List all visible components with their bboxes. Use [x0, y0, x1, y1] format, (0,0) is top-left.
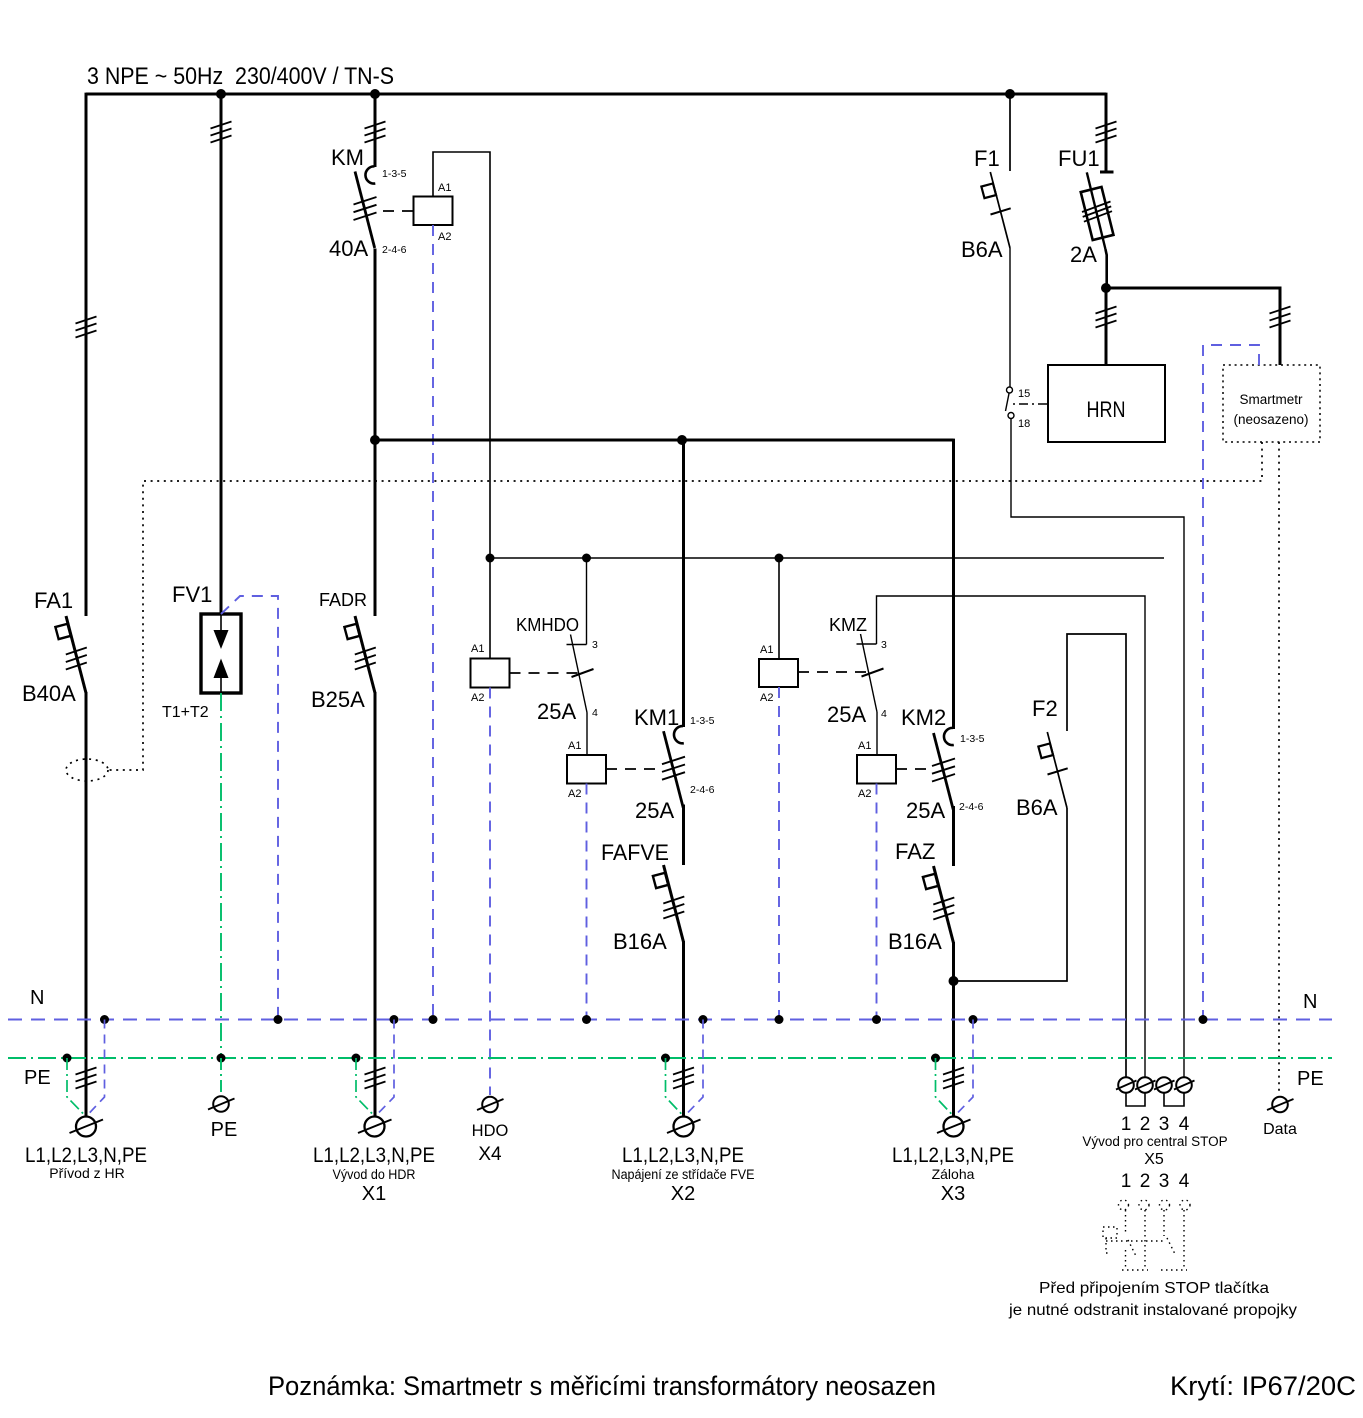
dashed link from KM2 coil to KM2 contact	[896, 768, 930, 770]
N drop to X0	[88, 1020, 105, 1116]
wire: HRN contact output to X5:4 drop	[1011, 419, 1184, 1078]
relay HRN box	[1048, 365, 1165, 442]
wire: FU1 branch from top bus corner	[1105, 93, 1108, 172]
breaker FAZ B16A	[923, 866, 954, 943]
wire: FV1 branch	[220, 94, 223, 614]
node: internal bus at X1 branch	[370, 435, 380, 445]
coil KM1 (A1/A2)	[567, 755, 606, 784]
svg-text:X2: X2	[671, 1183, 695, 1205]
wire: F1 output down to HRN contact	[1009, 248, 1011, 387]
svg-text:X4: X4	[478, 1144, 502, 1165]
terminal X3 Zaloha	[892, 1020, 1014, 1206]
wire: FA1 branch upper segment	[85, 93, 88, 616]
svg-text:Přívod z HR: Přívod z HR	[49, 1165, 124, 1181]
wire: FVE branch between KM1 and FAFVE	[682, 805, 685, 866]
svg-text:A2: A2	[471, 692, 484, 704]
phase marks above X0	[76, 1068, 97, 1089]
wire: KM2 coil A2 (blue dashed) to N bus	[876, 784, 878, 1020]
jumper links below X5 1-2 and 3-4	[1126, 1093, 1145, 1106]
wire: Zaloha branch between KM2 and FAZ	[952, 806, 955, 866]
svg-text:L1,L2,L3,N,PE: L1,L2,L3,N,PE	[313, 1144, 435, 1167]
svg-text:PE: PE	[211, 1119, 238, 1141]
dashed link from KMHDO coil to KMHDO contact	[510, 672, 579, 674]
svg-text:A1: A1	[760, 644, 773, 656]
contactor KM main contact 40A	[354, 166, 377, 248]
svg-text:HDO: HDO	[472, 1122, 509, 1140]
dashed link from KMZ coil to KMZ contact	[798, 671, 866, 673]
svg-text:X1: X1	[362, 1183, 386, 1205]
contactor KM1 main contact 25A	[662, 726, 685, 808]
svg-text:F2: F2	[1032, 696, 1058, 721]
wire: KMHDO contact pin4 to KM1 coil A1	[586, 713, 588, 756]
wire: Smartmetr neutral (blue dashed)	[1203, 345, 1259, 1019]
wire: KMZ coil A1 from control bus	[778, 558, 780, 659]
node: control bus at KM coil / KMHDO coil	[486, 554, 495, 563]
wire: X1 branch lower segment	[374, 692, 377, 1116]
svg-text:KMZ: KMZ	[829, 615, 867, 635]
svg-text:FAFVE: FAFVE	[601, 840, 669, 865]
terminal X4 HDO	[472, 1097, 509, 1165]
svg-text:2-4-6: 2-4-6	[690, 784, 715, 796]
terminal Data	[1263, 1097, 1297, 1138]
wire: KMZ coil A2 (blue dashed) to N bus	[778, 687, 780, 1019]
phase marks on FV1 branch	[211, 122, 232, 143]
dashed link from KM1 coil to KM1 contact	[606, 768, 658, 770]
wire: FA1 branch lower segment	[85, 692, 88, 1116]
svg-text:Napájení ze střídače FVE: Napájení ze střídače FVE	[612, 1167, 755, 1182]
svg-text:L1,L2,L3,N,PE: L1,L2,L3,N,PE	[25, 1144, 147, 1167]
contact KMHDO (NO)	[567, 635, 594, 713]
node: bus junction at F1 branch	[1005, 89, 1015, 99]
svg-text:A2: A2	[438, 231, 451, 243]
svg-text:B40A: B40A	[22, 681, 76, 706]
phase marks on KM branch	[365, 122, 386, 143]
svg-text:PE: PE	[24, 1067, 51, 1089]
coil KMZ (A1/A2)	[759, 659, 798, 687]
phase marks on FA1 branch	[76, 317, 97, 338]
breaker FA1 B40A	[55, 616, 86, 693]
svg-text:2-4-6: 2-4-6	[382, 244, 407, 256]
Smartmetr dotted box	[1223, 365, 1320, 442]
breaker FADR B25A	[344, 616, 375, 693]
breaker FAFVE B16A	[653, 865, 684, 942]
node: bus junction at KM branch	[370, 89, 380, 99]
svg-text:KM1: KM1	[634, 705, 679, 730]
svg-text:Vývod pro central STOP: Vývod pro central STOP	[1082, 1134, 1227, 1149]
breaker F2 B6A	[1038, 732, 1067, 808]
terminal Privod z HR (L1,L2,L3,N,PE)	[25, 1020, 147, 1182]
PE drop to X0	[67, 1058, 85, 1115]
svg-text:18: 18	[1018, 418, 1030, 430]
svg-text:FADR: FADR	[319, 590, 367, 610]
fuse switch FU1 2A	[1081, 172, 1114, 288]
svg-text:1: 1	[1121, 1114, 1132, 1135]
svg-text:A1: A1	[568, 740, 581, 752]
svg-text:je nutné odstranit instalované: je nutné odstranit instalované propojky	[1008, 1302, 1297, 1319]
svg-text:B6A: B6A	[1016, 795, 1058, 820]
nodes: PE bus junctions	[63, 1054, 941, 1063]
PE bus (green dash-dot)	[8, 1057, 1332, 1059]
svg-text:2: 2	[1140, 1171, 1151, 1192]
coil KM2 (A1/A2)	[857, 755, 896, 784]
current transformer dotted ellipse on FA1 line	[66, 759, 108, 781]
contact KMZ (NO)	[857, 634, 884, 712]
svg-text:X5: X5	[1144, 1151, 1164, 1168]
wire: FV1 earth link (green dash-dot) to PE bus	[220, 693, 222, 1058]
N bus (blue dashed)	[8, 1019, 1332, 1021]
wire: internal distribution bus after KM	[375, 439, 954, 442]
wire: KM coil A2 (blue dashed) to N bus	[432, 225, 434, 1019]
svg-text:F1: F1	[974, 146, 1000, 171]
wire: KM output down to internal bus	[374, 249, 377, 441]
svg-text:FA1: FA1	[34, 588, 73, 613]
svg-text:1-3-5: 1-3-5	[690, 715, 715, 727]
wire: KM coil A1 feed to control bus	[433, 152, 490, 558]
wire: feed over to Smartmetr	[1106, 288, 1280, 365]
svg-text:A1: A1	[438, 182, 451, 194]
terminal X5 Vyvod pro central STOP	[1082, 1077, 1227, 1192]
svg-text:FV1: FV1	[172, 582, 212, 607]
svg-text:25A: 25A	[827, 702, 866, 727]
svg-text:KM2: KM2	[901, 705, 946, 730]
svg-text:T1+T2: T1+T2	[162, 704, 209, 721]
svg-text:25A: 25A	[635, 798, 674, 823]
svg-text:3: 3	[881, 639, 887, 651]
wire: Zaloha branch from internal bus corner down to KM2 contact	[952, 439, 955, 729]
coil KMHDO (A1/A2)	[471, 659, 510, 688]
node: control bus at KMHDO contact	[582, 554, 591, 563]
svg-text:4: 4	[1179, 1114, 1190, 1135]
svg-text:3 NPE ~ 50Hz 230/400V / TN-S: 3 NPE ~ 50Hz 230/400V / TN-S	[87, 63, 394, 90]
svg-text:4: 4	[881, 708, 887, 720]
svg-text:A1: A1	[858, 740, 871, 752]
svg-text:KM: KM	[331, 145, 364, 170]
X5 terminal circles 1-4	[1116, 1077, 1137, 1093]
svg-text:Poznámka: Smartmetr s měřicími: Poznámka: Smartmetr s měřicími transform…	[268, 1371, 936, 1401]
dotted Data line from Smartmetr	[1278, 442, 1280, 1092]
wire: KM branch from bus to contact	[374, 94, 377, 167]
svg-text:25A: 25A	[906, 798, 945, 823]
svg-text:2A: 2A	[1070, 242, 1097, 267]
svg-text:A1: A1	[471, 643, 484, 655]
wire: KMZ contact pin4 to KM2 coil A1	[876, 712, 878, 755]
phase marks on FU1 branch	[1096, 122, 1117, 143]
svg-text:Data: Data	[1263, 1121, 1297, 1138]
svg-text:B25A: B25A	[311, 687, 365, 712]
svg-text:4: 4	[592, 707, 598, 719]
terminal X2 Napajeni ze stridace FVE	[612, 1020, 755, 1206]
contact HRN 15-18	[1006, 387, 1015, 419]
wire: KMHDO contact pin3 from control bus	[586, 558, 588, 645]
svg-text:KMHDO: KMHDO	[516, 615, 579, 635]
node: junction below FU1	[1101, 283, 1111, 293]
dotted STOP button symbol	[1103, 1200, 1190, 1270]
svg-text:(neosazeno): (neosazeno)	[1233, 412, 1308, 427]
wire: FVE branch lower segment to X2	[682, 941, 685, 1116]
dotted measurement loop from Smartmetr to CT on FA1 line	[108, 442, 1262, 770]
svg-text:25A: 25A	[537, 699, 576, 724]
svg-text:PE: PE	[1297, 1068, 1324, 1090]
svg-text:3: 3	[592, 639, 598, 651]
svg-text:HRN: HRN	[1087, 397, 1126, 422]
svg-text:1: 1	[1121, 1171, 1132, 1192]
terminal PE stub	[208, 1058, 237, 1141]
svg-text:L1,L2,L3,N,PE: L1,L2,L3,N,PE	[892, 1144, 1014, 1167]
wire: feed to HRN	[1105, 288, 1108, 365]
svg-text:Před připojením STOP tlačítka: Před připojením STOP tlačítka	[1039, 1280, 1269, 1297]
svg-text:A2: A2	[760, 692, 773, 704]
svg-text:L1,L2,L3,N,PE: L1,L2,L3,N,PE	[622, 1144, 744, 1167]
contactor KM2 main contact 25A	[932, 728, 955, 810]
svg-text:B6A: B6A	[961, 237, 1003, 262]
surge arrester FV1 T1+T2	[201, 614, 241, 693]
svg-text:A2: A2	[568, 788, 581, 800]
wire: KMZ contact pin3 elbow to X5:2 drop	[877, 596, 1146, 1077]
svg-text:Krytí: IP67/20C: Krytí: IP67/20C	[1170, 1371, 1356, 1401]
svg-text:3: 3	[1159, 1114, 1170, 1135]
terminal circle X0	[70, 1117, 104, 1137]
coil KM (A1/A2)	[414, 197, 453, 226]
svg-text:Smartmetr: Smartmetr	[1239, 392, 1303, 407]
svg-text:15: 15	[1018, 388, 1030, 400]
node: internal bus at FVE branch	[677, 435, 687, 445]
svg-text:N: N	[1303, 991, 1317, 1013]
svg-text:3: 3	[1159, 1171, 1170, 1192]
wire: FV1 neutral link (blue dashed) to N bus	[221, 596, 278, 1019]
dashed mechanical link from KM contact to KM coil	[383, 210, 413, 212]
wire: KMHDO coil A1 from control bus	[489, 558, 491, 659]
wire: F2 feed from Zaloha branch	[954, 808, 1068, 981]
node: bus junction at FV1 branch	[216, 89, 226, 99]
svg-text:FAZ: FAZ	[895, 839, 935, 864]
breaker F1 B6A	[981, 172, 1010, 248]
svg-text:1-3-5: 1-3-5	[960, 733, 985, 745]
svg-text:4: 4	[1179, 1171, 1190, 1192]
svg-text:X3: X3	[941, 1183, 965, 1205]
svg-text:N: N	[30, 987, 44, 1009]
wire: control bus	[490, 557, 1164, 559]
terminal X1 Vyvod do HDR	[313, 1020, 435, 1206]
wire: KMHDO coil A2 (blue dashed) down to HDO terminal X4	[489, 688, 491, 1096]
svg-text:B16A: B16A	[888, 929, 942, 954]
node: F2 tap on Zaloha branch	[949, 976, 959, 986]
wire: KM1 coil A2 (blue dashed) to N bus	[586, 784, 588, 1020]
svg-text:1-3-5: 1-3-5	[382, 168, 407, 180]
wire: FVE branch from internal bus to KM1 contact	[682, 440, 685, 727]
svg-text:40A: 40A	[329, 236, 368, 261]
wire: F1 branch from top bus	[1009, 94, 1011, 171]
svg-text:A2: A2	[858, 788, 871, 800]
svg-text:2-4-6: 2-4-6	[959, 801, 984, 813]
svg-text:Záloha: Záloha	[932, 1166, 975, 1182]
svg-text:Vývod do HDR: Vývod do HDR	[333, 1166, 416, 1182]
svg-text:B16A: B16A	[613, 929, 667, 954]
svg-text:2: 2	[1140, 1114, 1151, 1135]
wire: X1 branch between internal bus and FADR	[374, 440, 377, 616]
nodes: N bus junctions	[100, 1015, 1208, 1024]
wire: F2 top to X5:1 drop	[1067, 634, 1126, 1077]
wire: top supply bus	[86, 93, 1106, 96]
wire: Zaloha branch lower segment to X3	[952, 942, 955, 1116]
svg-text:FU1: FU1	[1058, 146, 1100, 171]
node: control bus at KMZ coil	[775, 554, 784, 563]
dash-dot link from 15-18 contact to HRN	[1013, 403, 1048, 405]
